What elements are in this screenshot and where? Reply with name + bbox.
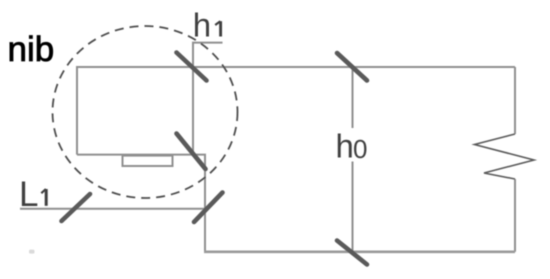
svg-text:L: L [19, 175, 38, 214]
svg-text:0: 0 [353, 134, 367, 164]
svg-text:nib: nib [8, 30, 55, 69]
svg-text:h: h [193, 7, 211, 44]
svg-text:h: h [336, 127, 354, 164]
